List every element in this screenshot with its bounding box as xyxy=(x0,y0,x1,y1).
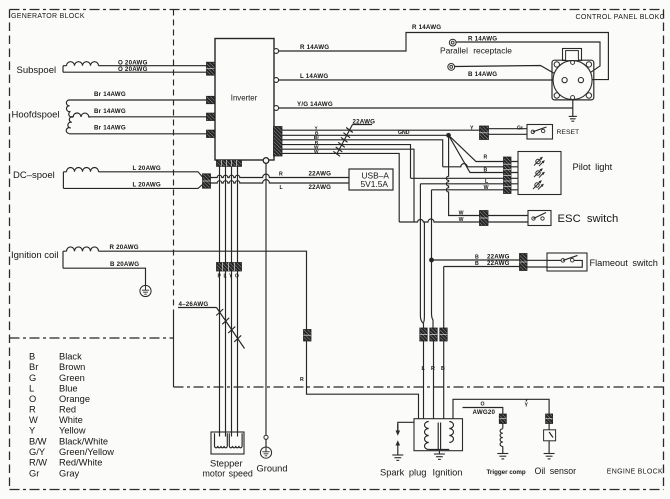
svg-text:4–26AWG: 4–26AWG xyxy=(179,301,209,308)
svg-text:L 20AWG: L 20AWG xyxy=(133,181,161,188)
svg-text:motor speed: motor speed xyxy=(203,469,253,479)
wire stepper L xyxy=(225,166,227,436)
wire ESC W bottom xyxy=(399,219,479,222)
wire stepper Y xyxy=(231,166,233,436)
svg-text:O: O xyxy=(235,274,239,280)
ring terminal R xyxy=(449,39,456,46)
wire engine R down xyxy=(433,341,435,419)
label R 20AWG xyxy=(110,244,139,251)
svg-text:RESET: RESET xyxy=(557,129,580,136)
svg-text:R/W: R/W xyxy=(29,458,47,468)
label Br 14AWG (3) xyxy=(94,125,126,132)
wire flameout B bottom xyxy=(444,267,520,342)
svg-text:G: G xyxy=(29,373,36,383)
dc-spoel label xyxy=(13,170,55,181)
USB-A 5V1.5A module xyxy=(349,169,393,190)
connector pilot light xyxy=(504,157,512,194)
engine block top boundary xyxy=(174,386,664,388)
connector hoofdspoel pin 2 xyxy=(207,113,216,120)
hoofdspoel label xyxy=(12,110,60,121)
wire L 14AWG from inverter xyxy=(279,79,562,81)
hoofdspoel coil winding xyxy=(66,100,92,133)
wire R 20AWG ignition coil to engine xyxy=(99,251,419,419)
label R (pilot) xyxy=(484,154,488,160)
wire R 14AWG from inverter xyxy=(279,33,609,80)
svg-text:GENERATOR BLOCK: GENERATOR BLOCK xyxy=(11,13,85,20)
oil sensor body xyxy=(544,424,556,454)
svg-text:Ignition: Ignition xyxy=(433,468,463,478)
label Trigger comp xyxy=(487,469,526,476)
label B 20AWG xyxy=(110,261,139,268)
ignition coil label xyxy=(11,250,59,261)
label O 20AWG (1) xyxy=(118,60,148,67)
ESC stubs xyxy=(488,216,528,223)
svg-text:Green/Yellow: Green/Yellow xyxy=(59,447,114,457)
label 22AWG (usb R) xyxy=(309,171,332,178)
wire engine B down xyxy=(443,341,445,419)
svg-text:W: W xyxy=(459,217,464,223)
svg-text:5V1.5A: 5V1.5A xyxy=(361,179,389,189)
svg-text:Stepper: Stepper xyxy=(210,459,243,469)
svg-text:Gray: Gray xyxy=(59,468,79,478)
label Y (oil wire) xyxy=(525,399,529,408)
connector spark R xyxy=(304,330,312,342)
wire L 22AWG to USB xyxy=(211,180,350,183)
generator block bottom boundary xyxy=(10,337,174,339)
wire stepper P xyxy=(219,166,221,436)
wire pilot W xyxy=(432,190,504,328)
svg-text:Red/White: Red/White xyxy=(59,458,102,468)
label R (spark wire) xyxy=(300,377,304,383)
label L 20AWG (2) xyxy=(133,181,161,188)
svg-text:Pilot light: Pilot light xyxy=(573,162,613,172)
label B (pilot) xyxy=(484,167,488,173)
svg-text:L 14AWG: L 14AWG xyxy=(300,73,328,80)
spark plug gap symbol xyxy=(396,424,401,455)
label Br 14AWG (1) xyxy=(94,91,126,98)
ground (ignition coil) xyxy=(140,285,151,296)
ground (oil sensor) xyxy=(544,454,555,459)
spark plug wire xyxy=(398,422,414,431)
label Spark plug xyxy=(380,468,426,478)
ESC switch S2 xyxy=(528,211,551,226)
svg-text:Br: Br xyxy=(29,362,38,372)
svg-text:Subspoel: Subspoel xyxy=(17,65,57,76)
svg-text:B 14AWG: B 14AWG xyxy=(468,71,497,78)
label B 22AWG (1) xyxy=(475,253,510,260)
label GND xyxy=(398,130,410,136)
svg-text:22AWG: 22AWG xyxy=(309,184,332,191)
label 22AWG (usb L) xyxy=(309,184,332,191)
svg-text:W: W xyxy=(484,185,489,191)
labels L R B xyxy=(422,366,446,372)
svg-text:AWG20: AWG20 xyxy=(473,409,496,416)
connector hoofdspoel pin 3 xyxy=(207,130,216,137)
connector trigger xyxy=(499,414,506,424)
label L 14AWG xyxy=(300,73,328,80)
svg-text:Parallel receptacle: Parallel receptacle xyxy=(440,45,512,55)
svg-text:W: W xyxy=(314,149,319,155)
label W (ESC 1) xyxy=(459,210,464,216)
svg-text:GND: GND xyxy=(398,130,410,136)
legend color codes xyxy=(29,352,114,479)
wire pilot L xyxy=(420,184,503,328)
wire flameout B top xyxy=(432,259,520,261)
subspoel label xyxy=(17,65,57,76)
svg-text:B/W: B/W xyxy=(29,436,47,446)
svg-text:R 20AWG: R 20AWG xyxy=(110,244,139,251)
labels P L Y O xyxy=(218,274,240,280)
inverter ground node pin xyxy=(263,158,269,164)
label B 14AWG xyxy=(468,71,497,78)
svg-text:Ignition coil: Ignition coil xyxy=(11,250,59,261)
svg-text:Y/G 14AWG: Y/G 14AWG xyxy=(297,101,333,108)
generator block label xyxy=(11,13,85,20)
connector oil sensor xyxy=(546,414,553,424)
label B 22AWG (2) xyxy=(475,260,510,267)
svg-text:W: W xyxy=(29,415,38,425)
label ESC switch xyxy=(558,213,619,225)
parallel receptacle P1 xyxy=(552,49,594,100)
wire bundle 5 (to ESC join) xyxy=(282,149,414,222)
dc-spoel coil winding xyxy=(63,168,98,189)
wire bundle 3 (pilot feed 2) xyxy=(282,140,443,167)
node vertical with hops xyxy=(446,135,479,215)
connector dc-spoel xyxy=(203,174,211,188)
label W (pilot) xyxy=(484,185,489,191)
ground (stepper area) xyxy=(260,447,271,458)
svg-text:L 20AWG: L 20AWG xyxy=(133,165,161,172)
receptacle ground wire xyxy=(572,100,574,116)
wire stepper O xyxy=(237,166,239,436)
connector subspoel-inverter xyxy=(207,62,216,75)
label W (ESC 2) xyxy=(459,217,464,223)
stepper motor connector housing xyxy=(211,432,244,454)
bundle wire color letters xyxy=(314,125,319,155)
parallel receptacle label xyxy=(440,45,512,55)
label flameout switch xyxy=(590,258,658,268)
svg-text:O: O xyxy=(481,402,485,408)
svg-text:R: R xyxy=(300,377,304,383)
svg-text:Blue: Blue xyxy=(59,384,78,394)
wire Y/G 14AWG from inverter xyxy=(279,107,573,109)
svg-text:ESC switch: ESC switch xyxy=(558,213,619,225)
svg-text:Flameout switch: Flameout switch xyxy=(590,258,658,268)
node GND junction xyxy=(446,133,451,138)
svg-text:B: B xyxy=(475,254,479,260)
ignition ground wire xyxy=(438,451,440,454)
label O 20AWG (2) xyxy=(118,66,148,73)
wire bundle Y xyxy=(282,129,480,131)
label R 14AWG (top) xyxy=(412,24,441,31)
label pilot light xyxy=(573,162,613,172)
inverter output pin Y/G xyxy=(274,106,279,111)
svg-text:O 20AWG: O 20AWG xyxy=(118,66,148,73)
connector ESC xyxy=(480,211,489,226)
svg-text:Br 14AWG: Br 14AWG xyxy=(94,108,126,115)
svg-text:Y: Y xyxy=(470,126,474,132)
trigger coil xyxy=(500,424,503,454)
wire dc-spoel L 20AWG top xyxy=(99,172,203,177)
wire pilot 2 from bundle xyxy=(443,164,504,167)
svg-text:Orange: Orange xyxy=(59,394,90,404)
control panel block label xyxy=(576,14,665,21)
svg-text:O: O xyxy=(29,394,36,404)
node flameout junction xyxy=(429,258,434,263)
connector engine B xyxy=(440,328,447,341)
wire ESC join vertical xyxy=(423,222,426,323)
label O (trigger wire) xyxy=(481,402,485,408)
connector reset xyxy=(480,126,489,140)
wire hoofdspoel Br 14AWG mid xyxy=(92,116,207,118)
ignition module box xyxy=(414,419,463,451)
svg-text:Oil sensor: Oil sensor xyxy=(535,466,577,476)
label Oil sensor xyxy=(535,466,577,476)
svg-text:Y: Y xyxy=(29,426,35,436)
svg-text:R 14AWG: R 14AWG xyxy=(412,24,441,31)
svg-text:L: L xyxy=(29,384,34,394)
label stepper motor speed xyxy=(203,459,253,479)
wire bundle GND xyxy=(282,134,449,136)
svg-text:R: R xyxy=(279,172,283,178)
svg-text:Spark plug: Spark plug xyxy=(380,468,426,478)
subspoel coil winding xyxy=(63,62,99,73)
fan wire node to pilot 1 xyxy=(449,135,504,161)
wire R 14AWG receptacle stub xyxy=(456,42,600,78)
wire subspoel O 20AWG bottom xyxy=(63,71,207,73)
svg-text:22AWG: 22AWG xyxy=(309,171,332,178)
wire B 14AWG receptacle stub xyxy=(455,66,564,79)
svg-text:W: W xyxy=(459,210,464,216)
connector engine R xyxy=(430,328,437,341)
svg-text:G/Y: G/Y xyxy=(29,447,45,457)
ring terminal B xyxy=(448,64,455,71)
wire bundle 4 (pilot feed 4) xyxy=(282,145,411,179)
wire hoofdspoel Br 14AWG top xyxy=(69,99,207,101)
label RESET xyxy=(557,129,580,136)
label L (usb wire) xyxy=(280,185,284,191)
svg-text:Y: Y xyxy=(525,402,529,408)
engine block label xyxy=(607,468,663,475)
wire subspoel O 20AWG top xyxy=(99,65,207,67)
svg-text:R: R xyxy=(29,405,36,415)
svg-text:Gr: Gr xyxy=(29,468,39,478)
ground (ignition) xyxy=(434,454,445,459)
inverter bottom connector row xyxy=(217,160,242,166)
svg-text:Inverter: Inverter xyxy=(231,94,258,103)
generator block right boundary (dashed vertical) xyxy=(173,10,175,388)
ground terminal circle xyxy=(264,435,268,447)
svg-text:Black: Black xyxy=(59,352,82,362)
label Y (reset wire) xyxy=(470,126,474,132)
label R 14AWG (inverter) xyxy=(300,44,329,51)
svg-text:B: B xyxy=(441,366,445,372)
label AWG20 xyxy=(473,409,496,416)
svg-text:Black/White: Black/White xyxy=(59,436,108,446)
svg-text:Yellow: Yellow xyxy=(59,426,86,436)
svg-text:L: L xyxy=(224,274,227,280)
connector flameout xyxy=(520,254,528,271)
reset switch S1 xyxy=(527,125,553,140)
ground (trigger) xyxy=(497,454,508,459)
flameout switch S3 xyxy=(547,253,587,271)
pilot light assembly xyxy=(518,152,561,195)
svg-text:22AWG: 22AWG xyxy=(353,118,376,125)
label R (usb wire) xyxy=(279,172,283,178)
connector engine L xyxy=(420,328,427,341)
label Ignition xyxy=(433,468,463,478)
inverter U1 xyxy=(215,39,274,161)
svg-text:Br 14AWG: Br 14AWG xyxy=(94,125,126,132)
svg-text:Brown: Brown xyxy=(59,362,85,372)
inverter output pin L xyxy=(274,78,279,83)
svg-text:B: B xyxy=(484,167,488,173)
svg-text:22AWG: 22AWG xyxy=(487,260,510,267)
label Ground xyxy=(257,464,288,474)
label 4-26AWG xyxy=(179,301,209,308)
wire reset stubs xyxy=(489,129,528,135)
wire ignition to oil sensor xyxy=(453,399,549,418)
wire inverter ground xyxy=(265,163,267,435)
ground (spark plug) xyxy=(392,455,403,460)
pilot connector stubs xyxy=(511,162,518,190)
svg-text:B: B xyxy=(475,261,479,267)
label Gr xyxy=(517,126,523,132)
svg-text:CONTROL PANEL BLOKC: CONTROL PANEL BLOKC xyxy=(576,14,665,21)
wire ignition coil B to ground xyxy=(63,268,146,285)
svg-text:Hoofdspoel: Hoofdspoel xyxy=(12,110,60,121)
label L 20AWG (1) xyxy=(133,165,161,172)
svg-text:White: White xyxy=(59,415,83,425)
wire ignition to trigger xyxy=(463,408,503,415)
wire dc-spoel L 20AWG bottom xyxy=(63,185,202,189)
wire engine L down xyxy=(423,341,425,419)
svg-text:R: R xyxy=(484,154,488,160)
svg-text:R 14AWG: R 14AWG xyxy=(300,44,329,51)
label L (pilot) xyxy=(485,179,489,185)
svg-text:DC–spoel: DC–spoel xyxy=(13,170,55,181)
fan wire node to pilot 3 xyxy=(449,135,504,172)
label Y/G 14AWG xyxy=(297,101,333,108)
connector hoofdspoel pin 1 xyxy=(207,96,216,103)
4-26AWG callout leader xyxy=(178,308,245,349)
svg-text:Ground: Ground xyxy=(257,464,288,474)
svg-text:Red: Red xyxy=(59,405,76,415)
svg-text:Trigger comp: Trigger comp xyxy=(487,469,526,476)
svg-text:B 20AWG: B 20AWG xyxy=(110,261,139,268)
wire bundle 6 (W to ESC) xyxy=(282,153,399,222)
inverter right 6-pin connector xyxy=(274,127,283,157)
flameout stubs xyxy=(527,260,547,267)
label 22AWG (bundle) xyxy=(353,118,376,125)
svg-text:R 14AWG: R 14AWG xyxy=(468,35,497,42)
svg-text:Br 14AWG: Br 14AWG xyxy=(94,91,126,98)
22AWG callout leader with crossing ticks xyxy=(333,125,372,157)
svg-text:B: B xyxy=(29,352,35,362)
connector stepper PLYO xyxy=(217,263,242,272)
svg-text:ENGINE BLOCK: ENGINE BLOCK xyxy=(607,468,663,475)
svg-text:Green: Green xyxy=(59,373,85,383)
svg-text:Gr: Gr xyxy=(517,126,523,132)
wire R 22AWG to USB xyxy=(211,174,350,177)
ignition coil winding xyxy=(63,247,99,268)
ground (receptacle) xyxy=(569,116,577,121)
label R 14AWG (stub) xyxy=(468,35,497,42)
label Br 14AWG (2) xyxy=(94,108,126,115)
inverter output pin R xyxy=(274,49,279,54)
wire pilot 4 xyxy=(411,177,504,179)
wire hoofdspoel Br 14AWG bottom xyxy=(69,133,207,135)
